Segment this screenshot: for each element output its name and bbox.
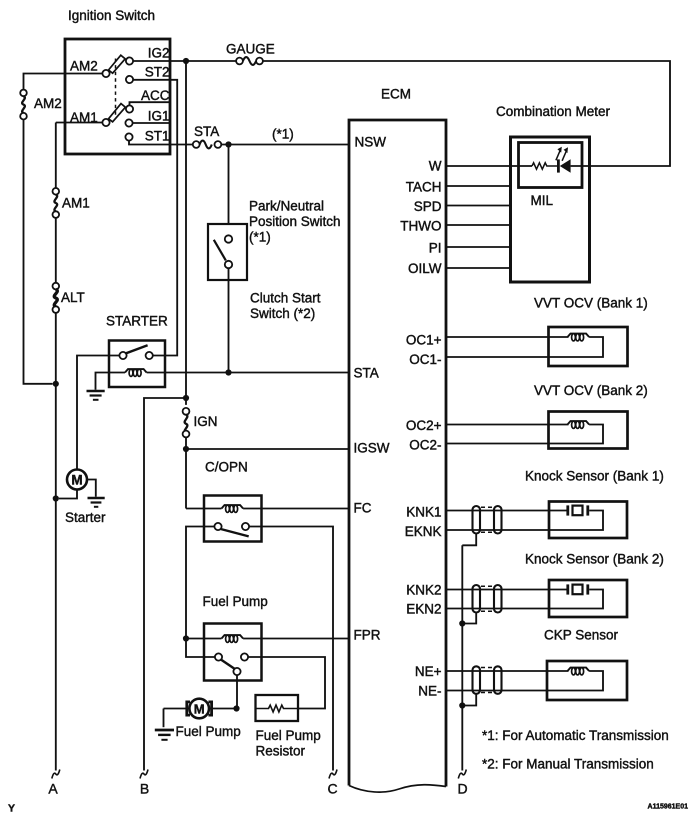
svg-text:Clutch Start: Clutch Start bbox=[250, 291, 321, 306]
starter relay arm bbox=[126, 345, 148, 353]
svg-text:ACC: ACC bbox=[141, 88, 170, 103]
park/neutral switch arm bbox=[214, 240, 226, 261]
svg-text:AM1: AM1 bbox=[62, 196, 90, 211]
wire IG2 out bbox=[133, 60, 236, 62]
svg-text:D: D bbox=[457, 781, 467, 797]
svg-text:GAUGE: GAUGE bbox=[226, 42, 275, 57]
node B branch bbox=[183, 395, 189, 401]
svg-text:IGSW: IGSW bbox=[354, 441, 390, 456]
svg-text:Y: Y bbox=[8, 803, 15, 815]
shield KNK2 dashed bottom bbox=[481, 610, 494, 612]
ignition switch box bbox=[65, 39, 170, 154]
terminal AM1 bbox=[102, 119, 109, 126]
svg-text:Switch (*2): Switch (*2) bbox=[250, 306, 315, 321]
svg-text:Resistor: Resistor bbox=[256, 744, 306, 759]
node C/OPN output / FPR coil bbox=[183, 635, 189, 641]
wire OILW bbox=[446, 267, 511, 269]
shield KNK1 dashed top bbox=[481, 506, 494, 508]
svg-text:STA: STA bbox=[194, 124, 219, 139]
wire AM2 terminal to left column bbox=[24, 74, 103, 90]
wire C/OPN coil to ECM FC bbox=[243, 508, 349, 510]
svg-text:VVT OCV (Bank 2): VVT OCV (Bank 2) bbox=[534, 383, 648, 398]
knock sensor bank2 box bbox=[549, 580, 627, 617]
wire IG1 stub bbox=[133, 122, 169, 124]
wire STA fuse to ECM NSW bbox=[221, 144, 349, 146]
wire MIL LED out bbox=[571, 165, 590, 167]
terminal IG2 bbox=[126, 57, 133, 64]
node shield drain KNK2 bbox=[459, 620, 465, 626]
starter relay contact right bbox=[146, 352, 153, 359]
fuel pump relay contact right bbox=[241, 653, 248, 660]
svg-text:NE+: NE+ bbox=[415, 664, 442, 679]
svg-text:STARTER: STARTER bbox=[106, 314, 168, 329]
park/neutral switch labels bbox=[249, 199, 341, 245]
wire EKNK bbox=[446, 529, 549, 531]
svg-text:M: M bbox=[71, 473, 82, 488]
wire fuel pump relay coil to ECM FPR bbox=[243, 638, 349, 640]
ECM left pin labels bbox=[354, 135, 390, 643]
fuel pump resistor box bbox=[256, 695, 299, 721]
fuel pump relay coil bbox=[222, 635, 244, 642]
svg-text:EKN2: EKN2 bbox=[406, 602, 441, 617]
svg-text:THWO: THWO bbox=[400, 219, 441, 234]
MIL LED cathode bar bbox=[557, 159, 560, 172]
svg-text:Fuel Pump: Fuel Pump bbox=[256, 728, 321, 743]
wire STA coil to ECM bbox=[147, 372, 349, 374]
break connector D bbox=[458, 770, 466, 779]
fuel pump motor M bbox=[187, 699, 212, 719]
fuse GAUGE bbox=[226, 42, 275, 65]
lever AM1 bbox=[109, 104, 126, 122]
svg-text:OILW: OILW bbox=[408, 261, 442, 276]
starter motor M bbox=[67, 470, 87, 490]
terminal ST1 bbox=[125, 133, 132, 140]
MIL LED arrows bbox=[556, 149, 567, 161]
node IG2/GAUGE junction bbox=[183, 58, 189, 64]
svg-text:C: C bbox=[327, 781, 337, 797]
svg-text:W: W bbox=[429, 159, 442, 174]
node shield drain NE bbox=[459, 702, 465, 708]
svg-text:ST1: ST1 bbox=[145, 129, 170, 144]
wire KNK2 bbox=[446, 589, 567, 591]
wire starter relay contact to motor bbox=[77, 356, 119, 470]
svg-text:NE-: NE- bbox=[418, 684, 441, 699]
wire OC2+ bbox=[446, 424, 569, 426]
shield NE left barrel bbox=[473, 666, 481, 694]
shield KNK2 dashed top bbox=[481, 585, 494, 587]
svg-text:OC1-: OC1- bbox=[409, 352, 441, 367]
shield NE right barrel bbox=[494, 666, 502, 694]
wire ACC stub bbox=[130, 102, 170, 105]
starter relay coil bbox=[125, 369, 147, 376]
knock sensor bank1 box bbox=[549, 502, 627, 539]
terminal AM2 bbox=[102, 70, 109, 77]
wire C/OPN coil feed bbox=[186, 508, 222, 510]
wire branch to line B bbox=[144, 398, 186, 771]
wire line A lower bbox=[55, 313, 57, 771]
C/OPN relay coil bbox=[222, 505, 244, 512]
wire STA node down to park/neutral switch bbox=[228, 145, 230, 236]
wire coil to ground bbox=[96, 373, 126, 390]
wire OC2- bbox=[446, 443, 549, 445]
wire starter motor to line A bbox=[59, 490, 77, 499]
knock sensor bank2 piezo element bbox=[568, 584, 588, 594]
svg-text:Ignition Switch: Ignition Switch bbox=[68, 8, 155, 23]
svg-text:M: M bbox=[194, 701, 205, 716]
svg-text:PI: PI bbox=[429, 241, 442, 256]
ECM bottom wave bbox=[349, 785, 446, 792]
svg-text:OC2-: OC2- bbox=[409, 438, 441, 453]
wire EKN2 bbox=[446, 608, 549, 610]
svg-text:MIL: MIL bbox=[531, 193, 554, 208]
ground fuel pump bbox=[155, 730, 174, 740]
node STA / park-neutral branch bbox=[225, 141, 231, 147]
wire fuel pump motor row bbox=[164, 708, 237, 710]
shield KNK2 drain wire bbox=[462, 613, 476, 624]
shield KNK2 right barrel bbox=[494, 585, 502, 613]
svg-text:A: A bbox=[48, 781, 58, 797]
park/neutral switch terminal top bbox=[225, 235, 232, 242]
wire line A mid bbox=[55, 218, 57, 283]
CKP sensor coil bbox=[568, 668, 590, 675]
wire IG2 node down middle column bbox=[185, 61, 187, 405]
svg-text:IGN: IGN bbox=[194, 414, 218, 429]
fuel pump resistor label bbox=[256, 728, 321, 758]
svg-text:VVT OCV (Bank 1): VVT OCV (Bank 1) bbox=[534, 296, 648, 311]
ECM right pin labels bbox=[400, 159, 442, 699]
svg-text:AM1: AM1 bbox=[70, 110, 98, 125]
shield NE dashed bottom bbox=[481, 692, 494, 694]
wire NE- bbox=[446, 690, 547, 692]
svg-text:Starter: Starter bbox=[65, 510, 106, 525]
wire GAUGE to meter top route bbox=[263, 61, 670, 166]
svg-text:IG1: IG1 bbox=[148, 109, 170, 124]
svg-text:SPD: SPD bbox=[414, 199, 442, 214]
shield KNK1 drain wire bbox=[462, 534, 476, 546]
svg-text:Knock Sensor (Bank 1): Knock Sensor (Bank 1) bbox=[525, 469, 664, 484]
VVT OCV Bank1 internal return bbox=[549, 337, 604, 357]
svg-text:EKNK: EKNK bbox=[405, 524, 442, 539]
MIL resistor zigzag bbox=[532, 163, 557, 169]
node fuel pump motor / resistor junction bbox=[233, 705, 239, 711]
MIL bulb box bbox=[519, 143, 583, 188]
svg-text:KNK1: KNK1 bbox=[406, 505, 441, 520]
knock sensor bank1 piezo element bbox=[568, 505, 588, 515]
shield KNK1 left barrel bbox=[473, 506, 481, 534]
wire KNK1 bbox=[446, 510, 567, 512]
fuel pump relay common contact bbox=[233, 668, 240, 675]
wire C/OPN right contact to line C bbox=[249, 527, 333, 771]
VVT OCV Bank2 coil bbox=[568, 421, 590, 428]
svg-text:Park/Neutral: Park/Neutral bbox=[249, 199, 324, 214]
svg-text:Combination Meter: Combination Meter bbox=[496, 104, 611, 119]
mechanical link dashed bbox=[115, 59, 117, 118]
VVT OCV Bank1 box bbox=[549, 327, 628, 366]
wire PI bbox=[446, 246, 511, 248]
C/OPN relay box bbox=[204, 496, 262, 542]
wire park/neutral switch to STA wire bbox=[228, 268, 230, 372]
VVT OCV Bank2 box bbox=[549, 412, 628, 449]
CKP sensor internal return bbox=[547, 671, 603, 691]
fuse AM2 bbox=[20, 90, 62, 120]
terminal IG1 bbox=[125, 119, 132, 126]
combination meter box bbox=[511, 137, 590, 282]
svg-text:Fuel Pump: Fuel Pump bbox=[176, 724, 241, 739]
knock sensor bank1 internal return bbox=[549, 511, 603, 531]
svg-text:ALT: ALT bbox=[61, 290, 85, 305]
starter relay box bbox=[109, 341, 165, 388]
clutch start switch labels bbox=[250, 291, 321, 322]
shield KNK2 left barrel bbox=[473, 585, 481, 613]
ground starter motor bbox=[88, 498, 105, 507]
park/neutral position switch box bbox=[208, 224, 247, 280]
fuel pump relay arm bbox=[221, 660, 234, 669]
VVT OCV Bank2 internal return bbox=[549, 425, 604, 444]
shield KNK1 right barrel bbox=[494, 506, 502, 534]
wire ST1 to STA fuse bbox=[129, 141, 193, 145]
svg-text:AM2: AM2 bbox=[34, 96, 62, 111]
svg-text:(*1): (*1) bbox=[272, 127, 294, 142]
break connector C bbox=[329, 770, 337, 779]
svg-text:OC1+: OC1+ bbox=[406, 333, 442, 348]
wire ST2 to starter relay bbox=[133, 80, 177, 356]
svg-text:CKP Sensor: CKP Sensor bbox=[544, 628, 619, 643]
CKP sensor box bbox=[547, 661, 627, 700]
svg-text:A115961E01: A115961E01 bbox=[648, 804, 689, 811]
C/OPN relay arm bbox=[221, 529, 249, 536]
terminal ST2 bbox=[126, 76, 133, 83]
wire OC1+ bbox=[446, 336, 569, 338]
svg-text:TACH: TACH bbox=[406, 180, 442, 195]
break connector B bbox=[140, 770, 148, 779]
svg-text:STA: STA bbox=[354, 366, 379, 381]
svg-text:Knock Sensor (Bank 2): Knock Sensor (Bank 2) bbox=[525, 552, 664, 567]
node park/neutral to STA bbox=[225, 369, 231, 375]
lever AM2 bbox=[109, 55, 126, 73]
svg-text:AM2: AM2 bbox=[70, 59, 98, 74]
wire IGN fuse to C/OPN coil bbox=[185, 437, 187, 508]
knock sensor bank2 internal return bbox=[549, 590, 603, 609]
svg-text:OC2+: OC2+ bbox=[406, 418, 442, 433]
C/OPN contact left bbox=[214, 523, 221, 530]
svg-text:(*1): (*1) bbox=[249, 230, 271, 245]
fuel pump relay box bbox=[204, 624, 262, 681]
shield NE dashed top bbox=[481, 667, 494, 669]
starter relay contact left bbox=[119, 352, 126, 359]
park/neutral switch terminal bottom bbox=[225, 261, 232, 268]
terminal ACC bbox=[126, 105, 133, 112]
ECM box bbox=[349, 120, 446, 787]
svg-text:*1: For Automatic Transmission: *1: For Automatic Transmission bbox=[482, 728, 669, 743]
VVT OCV Bank1 coil bbox=[568, 334, 590, 341]
svg-text:*2: For Manual Transmission: *2: For Manual Transmission bbox=[482, 757, 654, 772]
wire starter motor to ground bbox=[87, 480, 96, 497]
svg-text:ST2: ST2 bbox=[145, 65, 170, 80]
svg-text:IG2: IG2 bbox=[148, 46, 170, 61]
fuse AM1 bbox=[53, 188, 90, 218]
fuel pump relay contact left bbox=[215, 653, 222, 660]
wire OC1- bbox=[446, 356, 549, 358]
wire AM2 fuse down to node on line A bbox=[24, 120, 53, 384]
svg-text:B: B bbox=[140, 781, 149, 797]
break connector A bbox=[52, 770, 60, 779]
svg-text:NSW: NSW bbox=[355, 135, 387, 150]
wire TACH bbox=[446, 185, 511, 187]
wire fuel pump relay coil feed bbox=[186, 638, 222, 640]
wire C/OPN left contact down to fuel pump relay bbox=[186, 527, 215, 658]
wire fuel pump relay common down bbox=[236, 675, 238, 708]
wire line A upper bbox=[55, 123, 57, 189]
wire THWO bbox=[446, 224, 511, 226]
shield KNK1 dashed bottom bbox=[481, 531, 494, 533]
svg-text:KNK2: KNK2 bbox=[406, 583, 441, 598]
ground starter relay bbox=[87, 391, 105, 400]
node IGSW branch bbox=[183, 446, 189, 452]
svg-text:ECM: ECM bbox=[381, 87, 411, 102]
fuse IGN bbox=[183, 408, 218, 438]
svg-text:Position Switch: Position Switch bbox=[249, 214, 341, 229]
svg-text:FC: FC bbox=[354, 501, 372, 516]
wire SPD bbox=[446, 205, 511, 207]
wire NE+ bbox=[446, 670, 569, 672]
C/OPN contact right bbox=[242, 523, 249, 530]
fuse ALT bbox=[53, 283, 85, 313]
shield NE drain wire bbox=[462, 694, 476, 706]
svg-text:Fuel Pump: Fuel Pump bbox=[203, 594, 268, 609]
wire and zigzag fuel pump resistor bbox=[256, 705, 299, 712]
svg-text:FPR: FPR bbox=[354, 628, 381, 643]
wire IGSW to ECM bbox=[186, 448, 349, 450]
wire AM1 terminal to line A bbox=[56, 122, 103, 124]
wire fuel pump relay right contact to resistor bbox=[248, 657, 325, 709]
node line A / starter motor bbox=[53, 495, 59, 501]
fuse STA bbox=[193, 124, 222, 148]
svg-text:C/OPN: C/OPN bbox=[205, 460, 248, 475]
wire line D bbox=[461, 545, 463, 770]
wire W to MIL bbox=[446, 165, 532, 167]
wire fuel pump motor to ground bbox=[163, 709, 165, 728]
node line A / AM2 branch bbox=[53, 381, 59, 387]
MIL LED triangle bbox=[560, 159, 571, 173]
